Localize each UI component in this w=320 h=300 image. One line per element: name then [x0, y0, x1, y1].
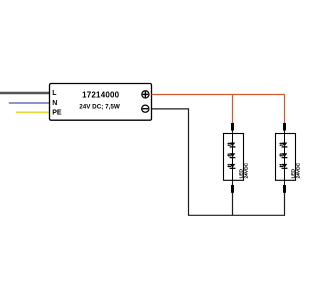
- terminal bottom of module 1: [231, 185, 234, 193]
- power supply U1 (LED driver 17214000): [50, 84, 152, 121]
- value label LED module 2: [291, 162, 302, 178]
- wire L (mains live input): [0, 92, 50, 94]
- wire inside module 1: [232, 134, 234, 181]
- module 2 body: [276, 134, 296, 181]
- svg-text:N: N: [52, 100, 57, 107]
- svg-text:PE: PE: [52, 110, 62, 117]
- LED D1: [227, 143, 236, 147]
- wire +24V orange from plus terminal to both LED modules: [152, 95, 285, 124]
- svg-text:24VDC: 24VDC: [243, 162, 249, 178]
- svg-text:24VDC: 24VDC: [295, 162, 300, 178]
- value label LED module 1: [239, 162, 250, 178]
- svg-text:24V DC; 7,5W: 24V DC; 7,5W: [79, 103, 120, 110]
- LED D4: [279, 143, 288, 147]
- LED D5: [279, 153, 288, 157]
- terminal minus (-) output: [142, 105, 149, 112]
- svg-text:L: L: [52, 90, 57, 97]
- wire through module 1: [232, 126, 234, 190]
- terminal top of module 2: [283, 123, 286, 131]
- terminal top of module 1: [231, 123, 234, 131]
- LED module 2 (right, LED 24VDC): [276, 123, 302, 193]
- wire inside module 2: [284, 134, 286, 181]
- module 1 body: [224, 134, 244, 181]
- LED D6: [279, 164, 288, 168]
- wire PE (protective earth input): [16, 111, 50, 113]
- wire N (mains neutral input): [9, 102, 50, 104]
- wire 0V return black from minus terminal along bottom bus: [152, 109, 285, 215]
- LED D3: [227, 164, 236, 168]
- LED module 1 (left, LED 24VDC): [224, 123, 250, 193]
- terminal bottom of module 2: [283, 185, 286, 193]
- svg-text:17214000: 17214000: [82, 91, 120, 100]
- wire through module 2: [284, 126, 286, 190]
- terminal plus (+) output: [142, 91, 149, 98]
- LED D2: [227, 153, 236, 157]
